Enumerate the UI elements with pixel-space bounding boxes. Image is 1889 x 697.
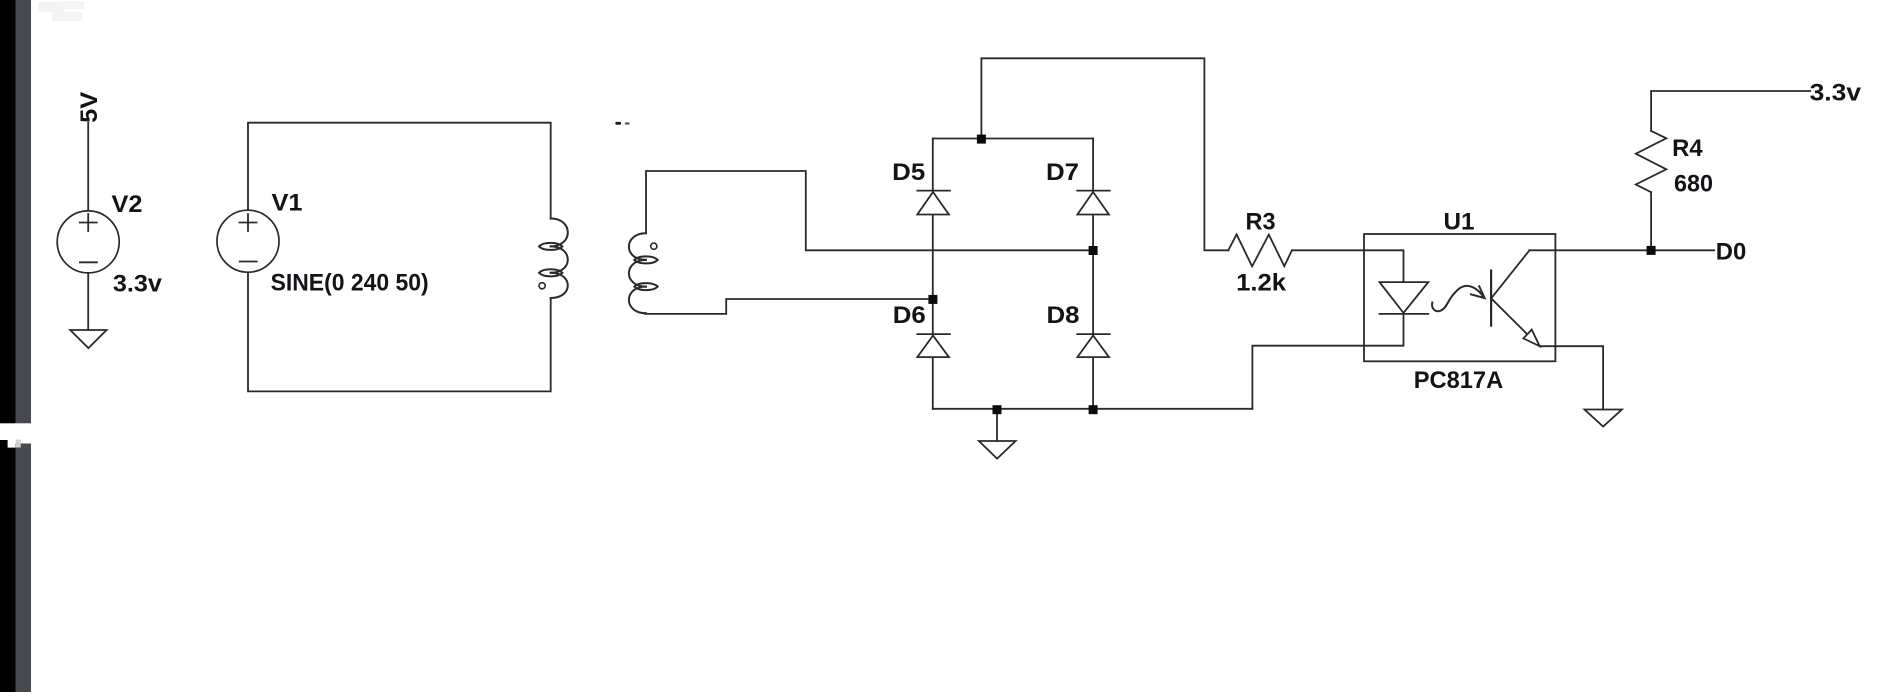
wire R3 to U1 LED [1292,250,1404,282]
wire bridge right vertical [1092,139,1094,409]
wire V2 to ground [87,273,89,330]
node top feed junction [977,135,986,144]
resistor R3 [1228,234,1292,266]
voltage source V2 [57,211,119,273]
phototransistor base bar [1490,271,1492,326]
wire R4 bottom to D0 node [1650,192,1652,250]
svg-text:680: 680 [1674,171,1713,198]
svg-text:D0: D0 [1716,239,1747,266]
svg-text:5V: 5V [76,92,103,123]
ground right [1585,410,1622,427]
transformer primary L1 [539,219,568,299]
diode D6 [917,334,950,357]
wire bridge bottom rail [933,408,1253,410]
svg-text:3.3v: 3.3v [113,270,163,297]
svg-text:D8: D8 [1047,302,1080,329]
svg-text:V2: V2 [112,191,143,218]
light arrow squiggle [1432,286,1485,311]
node secondary top junction [1089,246,1098,255]
resistor R4 [1636,131,1667,192]
junction dots [928,135,1655,415]
left window edge gray bar [16,0,32,692]
node D0 junction [1647,246,1656,255]
svg-text:SINE(0 240 50): SINE(0 240 50) [271,270,429,297]
phototransistor emitter [1492,299,1528,334]
phase dot primary [539,283,545,289]
wire bridge top rail [933,138,1093,140]
svg-text:PC817A: PC817A [1414,367,1504,394]
optocoupler U1 box [1364,234,1555,361]
svg-text:D7: D7 [1046,159,1079,186]
diode D8 [1077,334,1110,357]
svg-text:D5: D5 [892,159,925,186]
node bridge ground junction [993,405,1002,414]
wire 5V to V2 [87,123,89,211]
wire collector to D0 [1530,249,1715,251]
LED inside U1 [1380,282,1429,314]
diode D7 [1077,191,1110,215]
svg-text:R3: R3 [1246,209,1276,236]
diode D5 [917,191,950,215]
node D8 bottom junction [1089,405,1098,414]
faint smudges top-left [38,1,84,21]
wire emitter to right ground [1540,346,1603,409]
wire secondary bottom to bridge mid-left [645,299,933,314]
wire LED cathode to bridge bottom [1252,314,1403,409]
wire top feed to R3 [981,58,1228,250]
stray dashes near (617,123) [615,122,629,125]
svg-text:V1: V1 [272,190,303,217]
svg-text:1.2k: 1.2k [1236,269,1287,296]
wire V1 loop [248,123,551,219]
left window edge black bar [0,0,16,692]
wire R4 top to 3.3v rail [1651,91,1810,131]
emitter arrowhead [1523,330,1539,347]
wire bridge left vertical [932,139,934,409]
transformer secondary L2 [629,233,658,313]
voltage source V1 [217,210,279,272]
svg-text:D6: D6 [893,302,926,329]
svg-text:3.3v: 3.3v [1810,80,1862,107]
phototransistor collector [1492,250,1530,297]
ground below bridge [979,410,1016,459]
wire secondary top to bridge mid-right [646,171,1093,250]
wire V1 loop bottom [248,272,551,392]
svg-text:U1: U1 [1444,208,1475,235]
phase dot secondary [651,243,657,249]
node secondary bottom junction [928,295,937,304]
svg-text:R4: R4 [1672,135,1703,162]
ground below V2 [70,330,106,348]
